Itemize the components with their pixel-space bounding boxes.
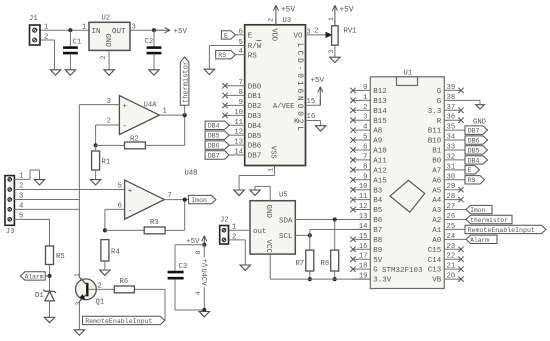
svg-text:VO: VO — [293, 33, 303, 41]
svg-text:RS: RS — [248, 52, 258, 60]
svg-text:V-: V- — [199, 282, 207, 290]
svg-text:8: 8 — [195, 251, 202, 255]
svg-text:DB4: DB4 — [208, 123, 220, 130]
svg-text:DB1: DB1 — [248, 93, 262, 101]
svg-text:A4: A4 — [432, 197, 442, 205]
svg-text:A15: A15 — [373, 177, 387, 185]
svg-text:R7: R7 — [296, 260, 305, 268]
svg-text:B12: B12 — [373, 88, 387, 96]
svg-text:GND: GND — [473, 119, 486, 127]
svg-text:V+: V+ — [202, 259, 210, 267]
svg-text:15: 15 — [307, 98, 316, 106]
svg-text:R/W: R/W — [248, 43, 262, 51]
svg-text:G: G — [373, 267, 378, 275]
svg-text:A2: A2 — [432, 217, 441, 225]
svg-text:3.3: 3.3 — [428, 108, 442, 116]
svg-text:B9: B9 — [373, 247, 382, 255]
svg-text:C3: C3 — [179, 263, 188, 271]
svg-text:DB4: DB4 — [468, 157, 480, 164]
svg-text:Q1: Q1 — [96, 299, 105, 307]
svg-text:R2: R2 — [130, 135, 139, 143]
svg-text:C2: C2 — [145, 38, 154, 46]
svg-text:thermistor: thermistor — [470, 217, 508, 224]
svg-text:U1: U1 — [404, 70, 413, 78]
svg-text:A12: A12 — [373, 167, 387, 175]
svg-text:16: 16 — [307, 113, 316, 121]
svg-text:RS: RS — [468, 177, 476, 184]
svg-text:12: 12 — [359, 203, 368, 211]
svg-text:8: 8 — [363, 163, 367, 171]
svg-text:DB0: DB0 — [248, 83, 262, 91]
svg-text:Alarm: Alarm — [470, 237, 489, 244]
svg-text:13: 13 — [359, 213, 368, 221]
svg-text:A0: A0 — [432, 237, 442, 245]
svg-text:C14: C14 — [428, 257, 442, 265]
svg-text:7: 7 — [168, 192, 172, 200]
svg-text:A/VEE: A/VEE — [273, 103, 295, 111]
svg-text:VDD: VDD — [269, 29, 277, 42]
svg-text:VB: VB — [432, 277, 442, 285]
svg-text:B0: B0 — [432, 158, 442, 166]
svg-text:GND: GND — [103, 34, 111, 48]
svg-text:2: 2 — [107, 118, 111, 126]
svg-text:VCC: VCC — [264, 240, 272, 254]
svg-text:E: E — [248, 33, 253, 41]
svg-text:R1: R1 — [102, 159, 111, 167]
svg-text:A6: A6 — [432, 177, 442, 185]
svg-text:E: E — [224, 32, 228, 39]
svg-text:DB7: DB7 — [208, 152, 220, 159]
svg-text:RemoteEnableInput: RemoteEnableInput — [468, 227, 535, 234]
svg-text:2: 2 — [44, 34, 48, 42]
svg-text:1: 1 — [44, 24, 48, 32]
svg-text:B10: B10 — [428, 138, 442, 146]
svg-text:B3: B3 — [373, 187, 383, 195]
svg-text:A1: A1 — [432, 227, 442, 235]
svg-text:G: G — [437, 88, 442, 96]
svg-text:SCL: SCL — [279, 233, 293, 241]
svg-text:R5: R5 — [56, 253, 65, 261]
svg-text:A8: A8 — [373, 128, 382, 136]
svg-text:0: 0 — [363, 84, 367, 92]
svg-text:J1: J1 — [29, 15, 38, 23]
svg-text:-: - — [128, 208, 133, 216]
svg-text:DB5: DB5 — [208, 133, 220, 140]
svg-text:4: 4 — [363, 124, 367, 132]
svg-text:17: 17 — [359, 253, 368, 261]
svg-text:B7: B7 — [373, 227, 382, 235]
svg-text:1: 1 — [328, 17, 335, 21]
svg-text:1: 1 — [74, 273, 81, 277]
svg-text:VSS: VSS — [269, 146, 277, 159]
svg-text:DB3: DB3 — [248, 113, 262, 121]
svg-text:+5V: +5V — [281, 6, 295, 14]
svg-text:B4: B4 — [373, 197, 383, 205]
svg-text:DB7: DB7 — [468, 128, 480, 135]
svg-text:3.3V: 3.3V — [373, 277, 392, 285]
svg-text:DB4: DB4 — [248, 123, 262, 131]
svg-text:14: 14 — [359, 223, 368, 231]
svg-text:3: 3 — [328, 50, 335, 54]
svg-text:C15: C15 — [428, 247, 442, 255]
svg-text:R4: R4 — [111, 249, 120, 257]
svg-text:B8: B8 — [373, 237, 382, 245]
svg-text:15: 15 — [359, 233, 368, 241]
svg-text:9: 9 — [363, 173, 367, 181]
svg-text:B14: B14 — [373, 108, 387, 116]
svg-text:OUT: OUT — [112, 28, 126, 36]
svg-text:IN: IN — [92, 28, 101, 36]
svg-text:U4B: U4B — [185, 169, 199, 177]
svg-text:E: E — [468, 167, 472, 174]
svg-text:2: 2 — [98, 283, 102, 291]
svg-text:DB2: DB2 — [248, 103, 262, 111]
svg-text:B1: B1 — [432, 148, 442, 156]
svg-text:R8: R8 — [321, 260, 330, 268]
svg-text:A7: A7 — [432, 167, 441, 175]
svg-text:2: 2 — [100, 55, 108, 59]
svg-text:Alarm: Alarm — [25, 273, 44, 280]
svg-text:U4A: U4A — [144, 101, 158, 109]
svg-text:B6: B6 — [373, 217, 383, 225]
svg-text:R6: R6 — [120, 278, 129, 286]
svg-text:STM32F103: STM32F103 — [382, 267, 423, 275]
svg-text:6: 6 — [363, 143, 367, 151]
svg-text:+: + — [123, 103, 128, 111]
svg-text:C1: C1 — [73, 39, 82, 47]
svg-text:3: 3 — [363, 114, 367, 122]
svg-text:U3: U3 — [283, 17, 292, 25]
svg-text:DB5: DB5 — [468, 147, 480, 154]
svg-text:U4C: U4C — [199, 269, 207, 282]
svg-text:A3: A3 — [432, 207, 442, 215]
svg-text:RemoteEnableInput: RemoteEnableInput — [85, 318, 152, 325]
svg-text:DB7: DB7 — [248, 153, 262, 161]
svg-text:Imon: Imon — [470, 207, 485, 214]
svg-text:DB6: DB6 — [208, 143, 220, 150]
svg-text:B15: B15 — [373, 118, 387, 126]
svg-text:DB6: DB6 — [248, 143, 262, 151]
svg-text:2: 2 — [268, 18, 276, 22]
svg-text:11: 11 — [359, 193, 368, 201]
svg-text:B11: B11 — [428, 128, 442, 136]
svg-text:5: 5 — [363, 134, 367, 142]
svg-text:SDA: SDA — [279, 217, 293, 225]
svg-text:+: + — [128, 187, 133, 195]
svg-text:7: 7 — [363, 153, 367, 161]
svg-text:19: 19 — [359, 273, 368, 281]
svg-text:16: 16 — [359, 243, 368, 251]
svg-text:-: - — [123, 123, 128, 131]
svg-text:GND: GND — [264, 205, 272, 219]
svg-text:RS: RS — [218, 52, 226, 59]
svg-text:thermistor: thermistor — [182, 61, 190, 103]
svg-text:out: out — [253, 228, 267, 236]
svg-text:LCD-016N002L: LCD-016N002L — [295, 43, 303, 134]
svg-text:A5: A5 — [432, 187, 442, 195]
svg-text:+5V: +5V — [340, 6, 354, 14]
svg-text:18: 18 — [359, 263, 368, 271]
svg-text:R3: R3 — [150, 219, 159, 227]
svg-text:5V: 5V — [373, 257, 383, 265]
svg-text:1: 1 — [82, 24, 86, 32]
svg-text:A10: A10 — [373, 148, 387, 156]
svg-text:2: 2 — [314, 28, 318, 36]
svg-text:A9: A9 — [373, 138, 382, 146]
svg-text:Imon: Imon — [191, 197, 207, 204]
svg-text:G: G — [437, 98, 442, 106]
svg-text:4: 4 — [195, 291, 202, 295]
svg-text:B13: B13 — [373, 98, 387, 106]
svg-text:1: 1 — [363, 94, 367, 102]
svg-text:J2: J2 — [220, 217, 229, 225]
svg-text:D1: D1 — [35, 292, 44, 300]
svg-text:RV1: RV1 — [344, 28, 357, 36]
svg-text:U5: U5 — [279, 192, 288, 200]
svg-text:DB5: DB5 — [248, 133, 262, 141]
svg-text:10: 10 — [359, 183, 368, 191]
svg-text:R: R — [437, 118, 442, 126]
svg-text:DB6: DB6 — [468, 137, 480, 144]
svg-text:B5: B5 — [373, 207, 383, 215]
svg-text:3: 3 — [75, 302, 82, 306]
svg-text:5: 5 — [118, 183, 122, 191]
svg-text:1: 1 — [163, 107, 167, 115]
svg-text:2: 2 — [363, 104, 367, 112]
svg-text:U2: U2 — [102, 15, 111, 23]
svg-text:+5V: +5V — [311, 77, 325, 85]
svg-text:J3: J3 — [6, 228, 15, 236]
svg-text:A11: A11 — [373, 158, 387, 166]
svg-text:C13: C13 — [428, 267, 442, 275]
svg-text:+5V: +5V — [174, 28, 188, 36]
